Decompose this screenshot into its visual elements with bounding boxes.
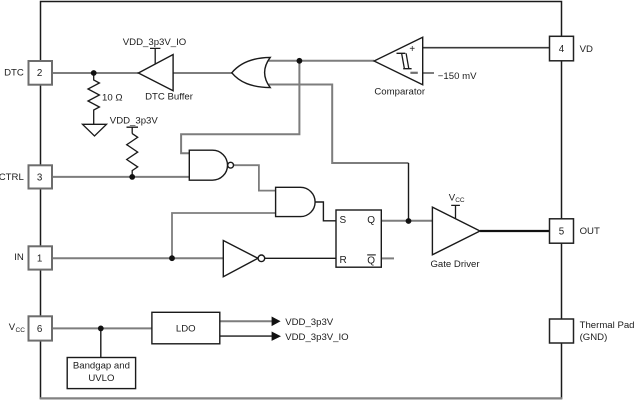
svg-text:CC: CC <box>16 327 26 334</box>
svg-text:LDO: LDO <box>176 323 196 334</box>
svg-text:(GND): (GND) <box>580 332 608 343</box>
svg-text:Gate Driver: Gate Driver <box>430 259 480 270</box>
svg-text:10 Ω: 10 Ω <box>102 92 123 103</box>
svg-text:Thermal Pad: Thermal Pad <box>580 320 635 331</box>
svg-text:DTC Buffer: DTC Buffer <box>145 91 194 102</box>
svg-text:Q: Q <box>367 215 375 226</box>
svg-text:VD: VD <box>580 44 593 55</box>
svg-text:S: S <box>340 215 347 226</box>
svg-text:4: 4 <box>559 44 565 55</box>
svg-text:1: 1 <box>37 254 42 265</box>
svg-text:5: 5 <box>559 227 565 238</box>
svg-text:DTC: DTC <box>4 68 24 79</box>
svg-text:3: 3 <box>37 172 43 183</box>
svg-text:R: R <box>340 255 347 266</box>
svg-text:OUT: OUT <box>580 226 600 237</box>
svg-text:+: + <box>409 44 415 55</box>
svg-text:2: 2 <box>37 68 42 79</box>
svg-text:VDD_3p3V: VDD_3p3V <box>285 317 334 328</box>
svg-text:Q: Q <box>367 255 375 266</box>
svg-text:UVLO: UVLO <box>88 373 114 384</box>
svg-text:CTRL: CTRL <box>0 172 24 183</box>
svg-text:IN: IN <box>14 252 24 263</box>
svg-text:VDD_3p3V_IO: VDD_3p3V_IO <box>285 332 348 343</box>
svg-text:−150 mV: −150 mV <box>438 71 477 82</box>
svg-text:Bandgap and: Bandgap and <box>73 360 130 371</box>
svg-text:Comparator: Comparator <box>374 86 425 97</box>
svg-text:CC: CC <box>455 197 465 204</box>
svg-text:6: 6 <box>37 324 43 335</box>
svg-text:VDD_3p3V: VDD_3p3V <box>110 116 159 127</box>
svg-text:VDD_3p3V_IO: VDD_3p3V_IO <box>123 37 186 48</box>
